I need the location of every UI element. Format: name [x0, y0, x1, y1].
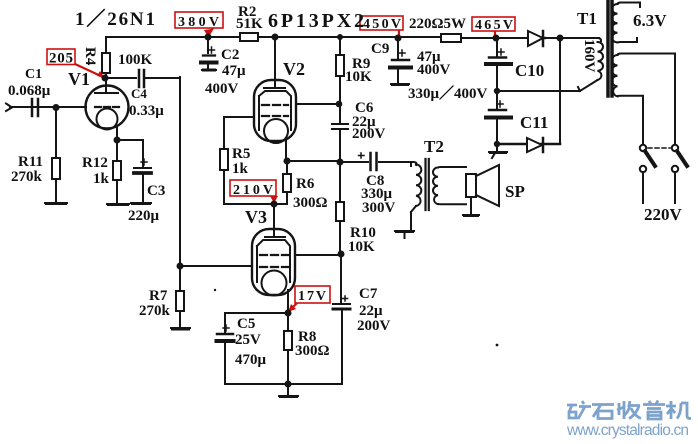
svg-text:C2: C2	[221, 47, 239, 63]
svg-text:300Ω: 300Ω	[293, 195, 328, 211]
svg-text:270k: 270k	[139, 303, 171, 319]
svg-text:T1: T1	[577, 9, 597, 28]
svg-text:380V: 380V	[178, 15, 219, 30]
svg-text:C1: C1	[25, 67, 42, 82]
svg-text:400V: 400V	[205, 81, 239, 97]
svg-text:V3: V3	[245, 207, 267, 227]
svg-text:220V: 220V	[644, 205, 683, 224]
svg-text:0.068μ: 0.068μ	[8, 83, 51, 99]
svg-text:1k: 1k	[232, 161, 249, 177]
svg-text:210V: 210V	[233, 183, 273, 198]
svg-text:300Ω: 300Ω	[295, 343, 330, 359]
svg-text:205: 205	[49, 51, 73, 67]
svg-text:200V: 200V	[357, 318, 391, 334]
svg-text:300V: 300V	[362, 200, 396, 216]
svg-text:17V: 17V	[298, 289, 326, 304]
svg-text:R12: R12	[82, 155, 108, 171]
svg-text:R5: R5	[232, 146, 250, 162]
svg-text:220Ω5W: 220Ω5W	[409, 16, 466, 32]
svg-text:1k: 1k	[93, 171, 110, 187]
svg-text:450V: 450V	[363, 17, 401, 32]
svg-text:270k: 270k	[11, 169, 43, 185]
svg-text:0.33μ: 0.33μ	[129, 103, 164, 119]
svg-text:C5: C5	[237, 316, 255, 332]
svg-text:SP: SP	[505, 182, 525, 201]
svg-text:160V: 160V	[581, 39, 597, 73]
svg-text:www.crystalradio.cn: www.crystalradio.cn	[566, 422, 689, 439]
svg-text:6P13PX2: 6P13PX2	[268, 10, 364, 32]
svg-text:V2: V2	[283, 59, 305, 79]
svg-text:10K: 10K	[345, 69, 372, 85]
svg-text:C4: C4	[131, 86, 147, 101]
svg-text:C7: C7	[359, 286, 378, 302]
svg-text:C9: C9	[371, 41, 389, 57]
svg-text:47μ: 47μ	[222, 63, 246, 79]
svg-text:T2: T2	[424, 137, 444, 156]
svg-text:220μ: 220μ	[128, 208, 160, 224]
svg-text:R11: R11	[18, 154, 43, 170]
svg-text:C10: C10	[515, 61, 544, 80]
svg-text:C3: C3	[147, 183, 165, 199]
svg-text:R7: R7	[149, 288, 168, 304]
svg-text:465V: 465V	[475, 18, 513, 33]
svg-text:51K: 51K	[236, 16, 263, 32]
svg-text:330μ／400V: 330μ／400V	[408, 84, 488, 102]
svg-text:400V: 400V	[417, 62, 451, 78]
svg-text:25V: 25V	[235, 332, 261, 348]
svg-text:1／26N1: 1／26N1	[75, 7, 155, 30]
svg-text:6.3V: 6.3V	[633, 11, 667, 30]
svg-text:R6: R6	[296, 176, 315, 192]
svg-text:22μ: 22μ	[359, 303, 383, 319]
svg-text:10K: 10K	[348, 239, 375, 255]
svg-text:100K: 100K	[118, 52, 153, 68]
svg-text:V1: V1	[68, 69, 90, 89]
svg-text:200V: 200V	[352, 126, 386, 142]
svg-text:470μ: 470μ	[235, 352, 267, 368]
svg-text:R4: R4	[82, 47, 98, 66]
svg-text:C11: C11	[520, 113, 548, 132]
